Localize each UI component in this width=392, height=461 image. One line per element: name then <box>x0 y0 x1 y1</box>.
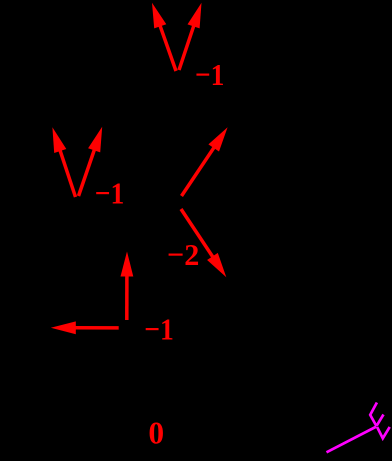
arrow A4 (left V, up-right) <box>79 127 103 196</box>
arrow A3 (left V, up-left) <box>52 127 75 197</box>
arrow A5 (middle node, up-right) <box>182 127 228 196</box>
magenta squiggle: upper-right stroke <box>377 415 384 426</box>
arrow A7 (bottom node, up) <box>121 252 134 321</box>
arrow A6 (middle node, down-right) <box>181 209 226 277</box>
svg-text:−2: −2 <box>167 237 199 272</box>
svg-text:−1: −1 <box>95 176 125 211</box>
arrow A8 (bottom node, left) <box>51 321 119 334</box>
svg-text:−1: −1 <box>195 57 224 92</box>
svg-text:−1: −1 <box>144 312 174 347</box>
magenta squiggle: upper bent stroke <box>370 403 377 427</box>
magenta squiggle: long diagonal stroke <box>327 427 377 453</box>
arrow A1 (top V, up-left) <box>152 3 176 71</box>
arrow A2 (top V, up-right) <box>179 3 202 70</box>
svg-text:0: 0 <box>148 416 164 451</box>
magenta squiggle: lower V stroke <box>377 427 390 438</box>
